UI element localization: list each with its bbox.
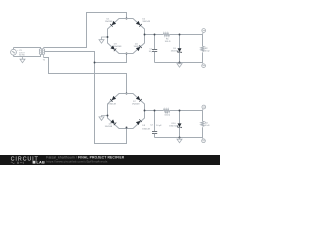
bridge rectifier 1 octagon [108, 19, 145, 54]
wire V1 bottom to transformer primary bottom [14, 54, 41, 56]
R4 labels [205, 123, 210, 128]
svg-text:1N4148: 1N4148 [105, 126, 113, 128]
svg-text:1N4148: 1N4148 [134, 46, 142, 48]
node bridge2 W [107, 115, 109, 117]
wire secondary center tap down [44, 52, 126, 144]
node bridge1 S [126, 53, 128, 55]
R1 labels [165, 39, 171, 43]
ground under source bottom wire [20, 57, 25, 63]
bottom rail circuit2 [155, 137, 203, 139]
svg-text:1 kΩ: 1 kΩ [205, 51, 210, 53]
capacitor C1 [152, 35, 157, 63]
wire V1 top to transformer primary [14, 48, 41, 49]
diode D4 bridge1 bottom-right [136, 45, 142, 51]
ground under rail2 [177, 138, 182, 143]
wire R1 to corner [169, 34, 202, 36]
diode D8 bridge2 bottom-left [110, 119, 116, 125]
svg-text:1N4744A: 1N4744A [171, 50, 180, 53]
wire R3 to corner [170, 110, 203, 112]
D6 label [108, 101, 116, 106]
ground under rail1 [177, 63, 182, 68]
footer bar [0, 155, 220, 165]
terminal top right circuit1 [202, 29, 206, 35]
svg-text:10 µF: 10 µF [156, 125, 162, 127]
C2 labels [150, 125, 162, 127]
wire secondary top to bridge1 N [44, 13, 127, 48]
CircuitLab logo [11, 157, 45, 165]
R2 labels [205, 48, 210, 53]
svg-text:1N4148: 1N4148 [108, 104, 116, 106]
terminal bottom right circuit2 [202, 138, 206, 143]
terminal bottom right circuit1 [202, 63, 206, 68]
svg-text:10 µF: 10 µF [149, 51, 155, 53]
D8 label [105, 124, 113, 129]
wire bridge1 S to center tap [95, 54, 127, 63]
bottom rail circuit1 [155, 62, 203, 64]
node center tap junction [94, 62, 96, 64]
R3 labels [164, 112, 170, 116]
diode D1 bridge1 top-left [110, 21, 116, 27]
C1 labels [149, 49, 155, 53]
svg-text:1N4744A: 1N4744A [169, 125, 178, 128]
transformer T1 [39, 48, 44, 58]
D2 label [142, 18, 150, 23]
svg-text:1N4148: 1N4148 [105, 21, 113, 23]
wire bridge2 E rail [145, 110, 164, 112]
svg-text:1N4148: 1N4148 [114, 46, 122, 48]
D5 labels [171, 48, 180, 53]
D10 labels [169, 123, 178, 128]
diode D9 bridge2 bottom-right [136, 119, 142, 125]
bridge rectifier 2 octagon [108, 94, 145, 129]
svg-text:1N4148: 1N4148 [142, 129, 150, 131]
svg-text:1N4148: 1N4148 [132, 104, 140, 106]
diode D6 bridge2 top-left [110, 96, 116, 102]
node bridge2 S [126, 127, 128, 129]
terminal top right circuit2 [202, 105, 206, 110]
D9 label [142, 125, 150, 131]
voltage source V1 [11, 48, 17, 57]
V1 labels [17, 50, 25, 57]
D4 label [134, 43, 142, 48]
resistor R1 [163, 33, 169, 36]
node bridge2 N [126, 93, 128, 95]
svg-text:100 Ω: 100 Ω [165, 41, 171, 43]
node bridge1 N [126, 18, 128, 20]
zener diode D10 [177, 111, 182, 138]
svg-text:100 Ω: 100 Ω [164, 115, 170, 117]
resistor R3 [164, 109, 170, 112]
node bridge1 W [107, 36, 109, 38]
svg-text:1N4148: 1N4148 [142, 21, 150, 23]
diode D2 bridge1 top-right [136, 21, 142, 27]
resistor R4 [201, 111, 204, 138]
D3 label [114, 44, 122, 49]
svg-text:LAB: LAB [36, 161, 45, 165]
svg-text:https://www.circuitlab.com/c/5: https://www.circuitlab.com/c/5pf9mq4xxvd… [46, 159, 108, 163]
diode D7 bridge2 top-right [136, 96, 142, 102]
ground at bridge1 W [99, 37, 108, 43]
capacitor C2 [152, 111, 157, 138]
wire bridge1 E rail [145, 34, 164, 36]
resistor R2 [201, 35, 204, 63]
wire secondary bottom to bridge2 N [44, 58, 127, 94]
svg-text:1 kΩ: 1 kΩ [205, 125, 210, 127]
diode D3 bridge1 bottom-left [110, 45, 116, 51]
zener diode D5 [177, 35, 182, 63]
D1 label [105, 18, 113, 23]
D7 label [132, 101, 140, 106]
ground at bridge2 W [99, 116, 108, 121]
